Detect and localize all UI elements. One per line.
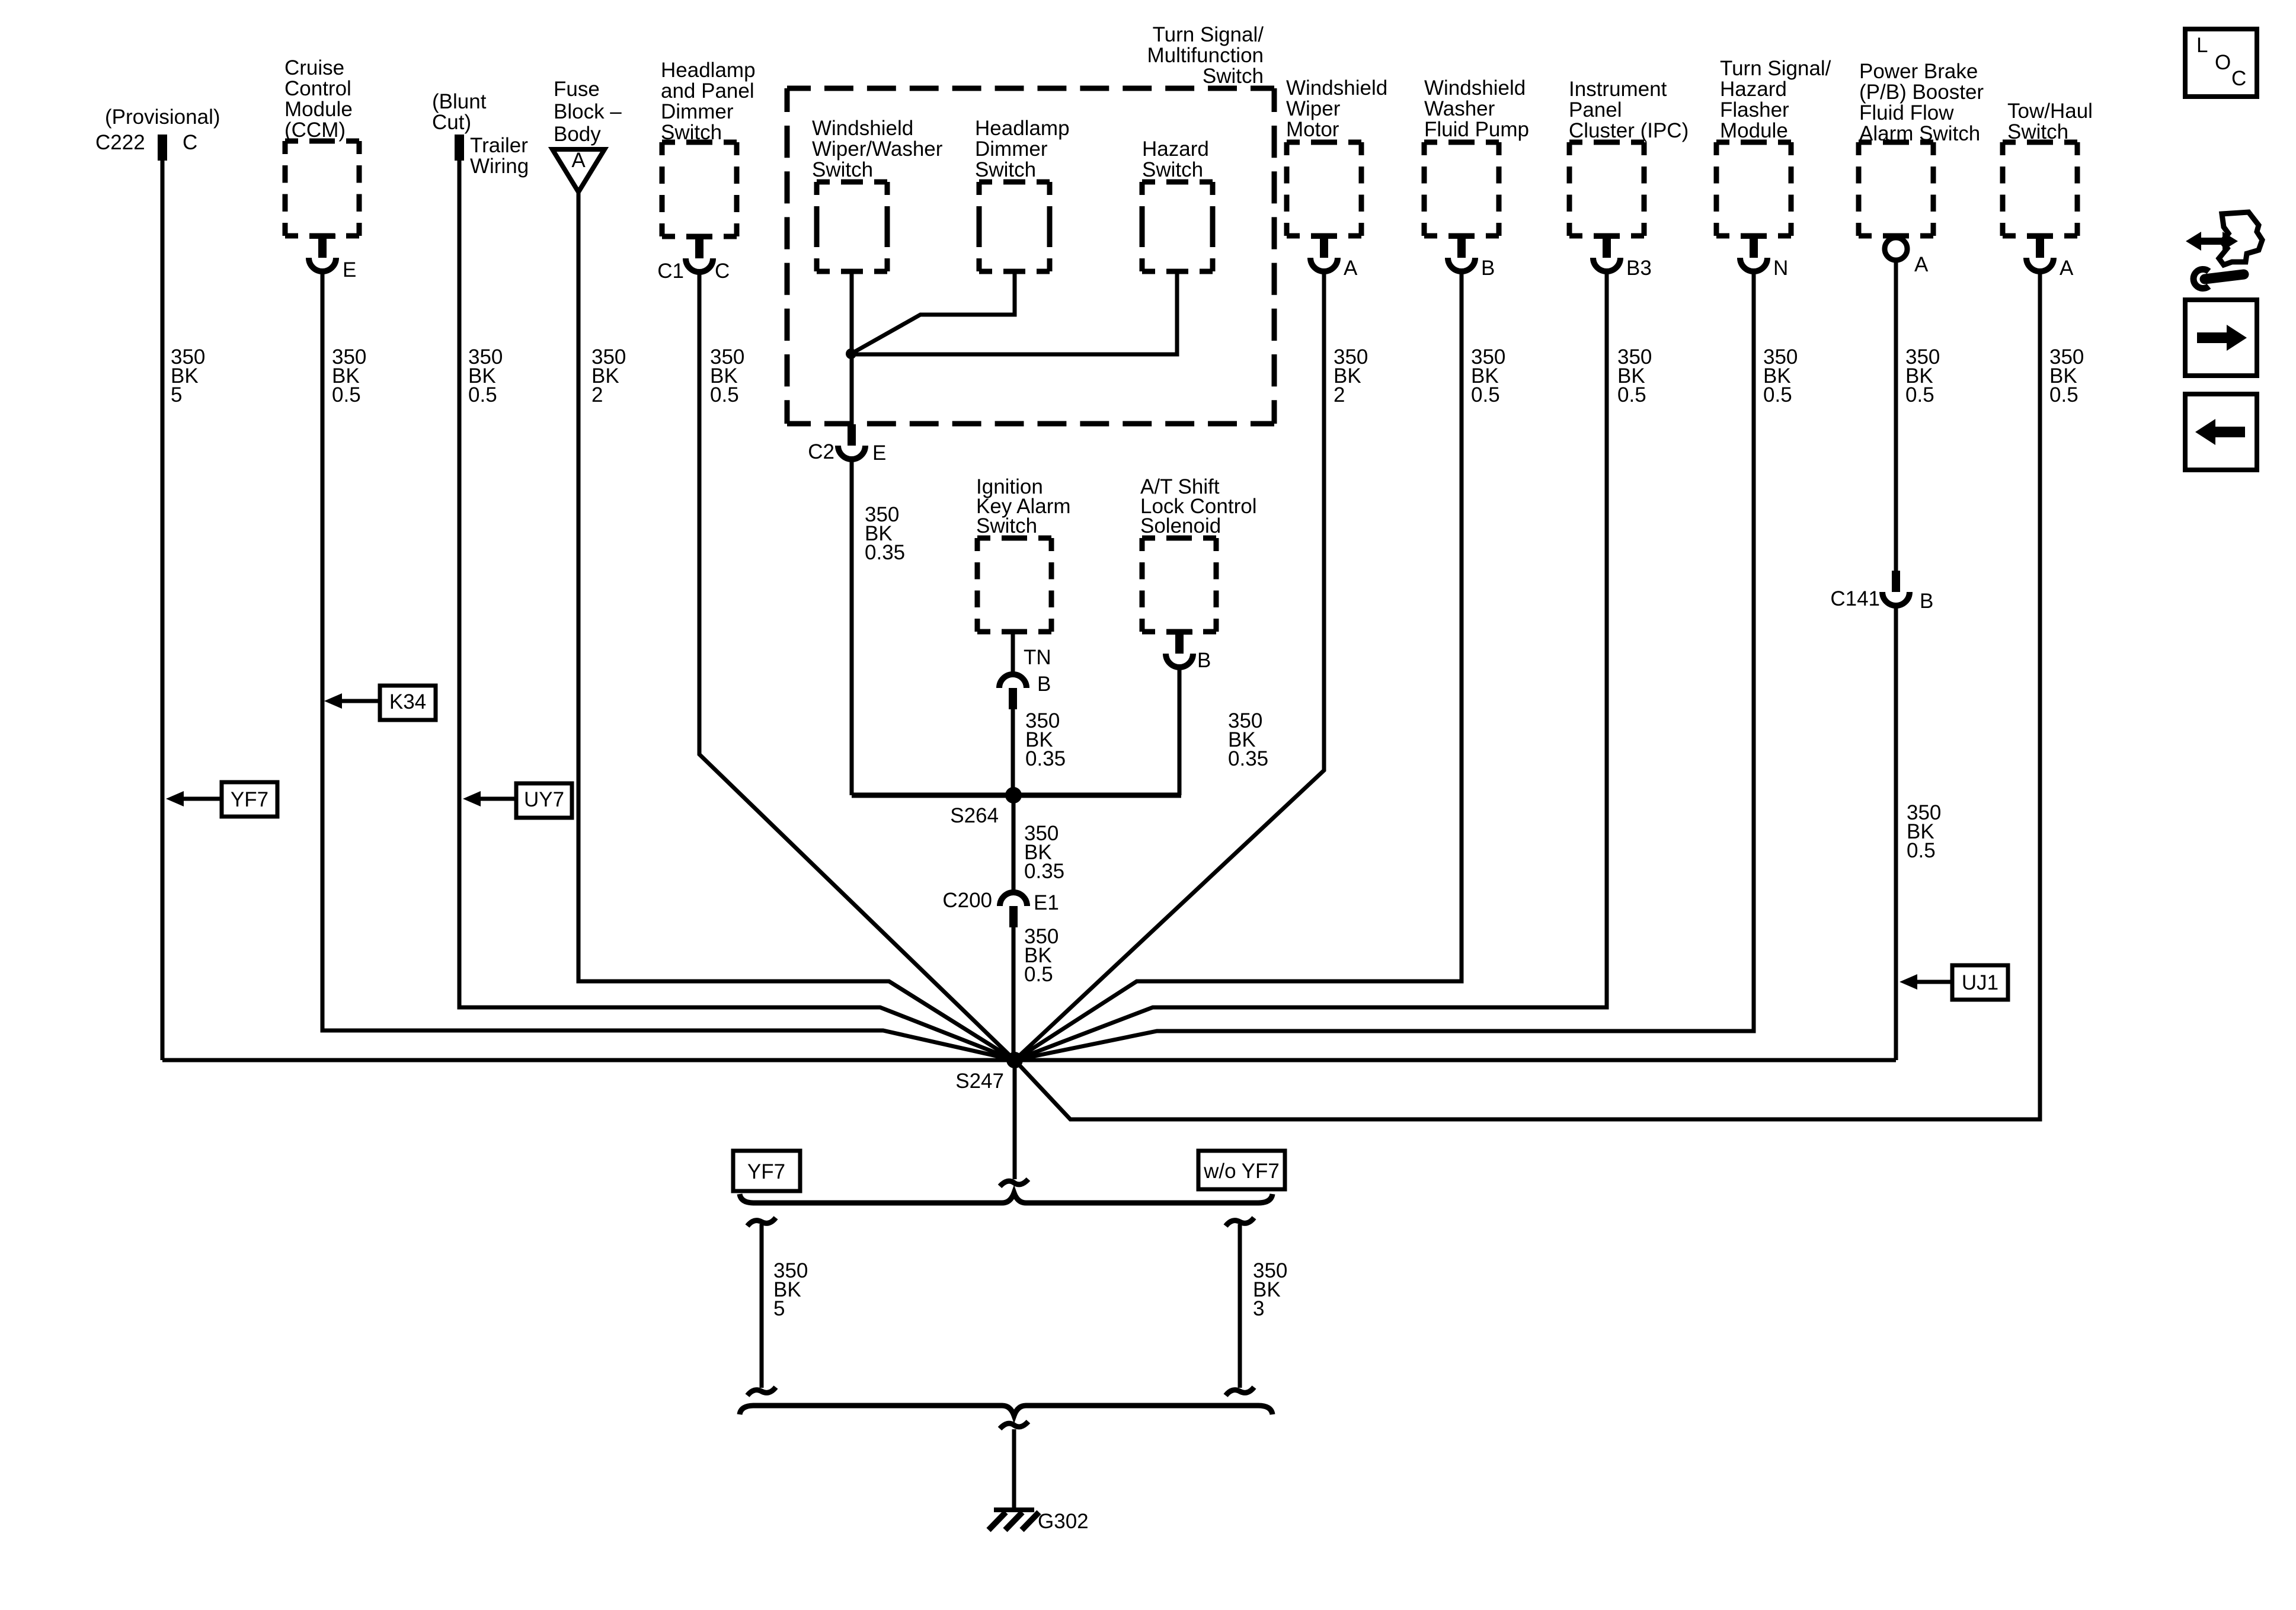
svg-text:w/o YF7: w/o YF7 — [1203, 1160, 1280, 1183]
svg-text:Windshield: Windshield — [812, 117, 913, 140]
wire IPC to S247 — [1015, 271, 1607, 1060]
circuit option arrow UJ1 — [1900, 965, 2008, 1000]
svg-text:(CCM): (CCM) — [284, 119, 346, 142]
svg-text:Fuse: Fuse — [554, 78, 600, 101]
svg-text:O: O — [2215, 51, 2231, 74]
svg-text:A: A — [2060, 257, 2074, 280]
ring terminal A of power brake alarm switch — [1885, 238, 1929, 276]
option tag YF7 — [733, 1151, 800, 1191]
wire C141 to S247 — [1894, 606, 1898, 1060]
wire label 350 BK 0.5 — [1763, 345, 1798, 406]
connector pin B3 of Instrument Panel Cluster (IPC) — [1593, 233, 1652, 280]
svg-text:N: N — [1773, 257, 1788, 280]
svg-text:YF7: YF7 — [231, 788, 268, 811]
svg-text:5: 5 — [773, 1297, 785, 1320]
wire C2-E to S264 — [850, 459, 854, 795]
svg-text:UJ1: UJ1 — [1962, 971, 1998, 994]
svg-text:Power Brake: Power Brake — [1859, 60, 1978, 83]
option brace bottom — [740, 1406, 1272, 1416]
svg-text:Control: Control — [284, 77, 351, 100]
connector C200 pin E1 — [942, 889, 1059, 927]
Fuse Block - Body triangle terminal A — [552, 78, 622, 192]
connector pin B of A/T shift lock solenoid — [1166, 629, 1211, 672]
wire S264 to C200 — [1012, 795, 1016, 892]
svg-text:Turn Signal/: Turn Signal/ — [1720, 57, 1831, 80]
svg-text:0.5: 0.5 — [332, 383, 361, 406]
connector pin A of tow/haul switch — [2026, 233, 2074, 280]
svg-text:2: 2 — [1334, 383, 1345, 406]
svg-text:Switch: Switch — [812, 158, 873, 181]
svg-text:Switch: Switch — [1203, 65, 1264, 88]
wire hazard switch horizontal — [851, 271, 1177, 354]
svg-text:0.35: 0.35 — [865, 541, 905, 564]
wire wiper motor to S247 — [1015, 271, 1324, 1060]
wire fuse block to S247 — [578, 192, 1015, 1060]
wire flasher module to S247 — [1015, 271, 1754, 1060]
svg-text:Hazard: Hazard — [1142, 137, 1209, 161]
wire CCM-E to S247 — [322, 271, 1015, 1060]
svg-text:G302: G302 — [1038, 1510, 1089, 1533]
wire label 350 BK 0.5 — [1024, 925, 1059, 986]
Windshield Washer Fluid Pump box — [1424, 76, 1529, 236]
junction dot inside multifunction switch — [846, 348, 856, 359]
Instrument Panel Cluster (IPC) box — [1569, 78, 1689, 236]
svg-text:0.35: 0.35 — [1025, 747, 1066, 770]
svg-text:Dimmer: Dimmer — [975, 137, 1048, 161]
svg-text:A: A — [1914, 253, 1929, 276]
svg-text:0.5: 0.5 — [1471, 383, 1500, 406]
component location icon (part outline with arrow and wrench) — [2186, 212, 2262, 289]
connector C2 pin E — [808, 424, 886, 465]
svg-text:YF7: YF7 — [747, 1160, 785, 1183]
svg-text:Motor: Motor — [1286, 118, 1339, 141]
svg-text:0.5: 0.5 — [2049, 383, 2078, 406]
svg-text:0.5: 0.5 — [710, 383, 739, 406]
svg-text:Headlamp: Headlamp — [661, 59, 756, 82]
svg-text:C: C — [2231, 67, 2246, 90]
svg-text:C2: C2 — [808, 440, 834, 463]
wire ignition to S264 — [1011, 709, 1015, 795]
svg-text:0.5: 0.5 — [1024, 963, 1053, 986]
svg-text:B: B — [1920, 590, 1933, 613]
left option wire 350 BK 5 — [747, 1218, 808, 1395]
connector C222 (Provisional) blunt terminal — [95, 105, 220, 161]
wire trailer to S247 — [459, 161, 1015, 1060]
svg-text:(P/B) Booster: (P/B) Booster — [1859, 81, 1984, 104]
wire label 350 BK 0.5 — [1907, 801, 1941, 862]
svg-text:Alarm Switch: Alarm Switch — [1859, 122, 1980, 145]
svg-text:A: A — [571, 149, 586, 172]
svg-text:Instrument: Instrument — [1569, 78, 1667, 101]
wire C222 to S247 ground bus — [161, 161, 165, 1060]
wire label 350 BK 0.5 — [332, 345, 366, 406]
svg-text:TN: TN — [1024, 646, 1051, 669]
wire label 350 BK 2 — [591, 345, 626, 406]
connector C1 pin C — [657, 234, 730, 283]
wire headlamp dimmer switch diagonal — [851, 271, 1015, 354]
wire label 350 BK 0.35 — [1025, 709, 1066, 770]
wire label 350 BK 5 — [171, 345, 205, 406]
wire to ground — [1012, 1429, 1016, 1510]
svg-text:E: E — [343, 258, 356, 281]
Hazard Switch box — [1142, 137, 1213, 271]
svg-text:and Panel: and Panel — [661, 79, 754, 103]
Tow/Haul Switch box — [2003, 100, 2093, 236]
svg-text:Turn Signal/: Turn Signal/ — [1153, 23, 1264, 46]
splice node S247 — [955, 1052, 1023, 1093]
option tag w/o YF7 — [1198, 1151, 1285, 1189]
LOC legend box — [2185, 29, 2257, 97]
A/T Shift Lock Control Solenoid box — [1140, 475, 1256, 632]
svg-text:Multifunction: Multifunction — [1147, 44, 1264, 67]
Turn Signal/Multifunction Switch outer box — [787, 23, 1274, 424]
svg-text:0.5: 0.5 — [468, 383, 497, 406]
wire label 350 BK 0.5 — [710, 345, 744, 406]
svg-text:B: B — [1481, 257, 1495, 280]
svg-text:0.5: 0.5 — [1617, 383, 1646, 406]
Ignition Key Alarm Switch box — [976, 475, 1071, 632]
wire label 350 BK 0.35 — [1024, 822, 1064, 883]
merge squiggle below braces — [1000, 1422, 1028, 1429]
svg-text:Headlamp: Headlamp — [975, 117, 1070, 140]
svg-text:E1: E1 — [1034, 891, 1059, 914]
svg-text:Cluster (IPC): Cluster (IPC) — [1569, 119, 1689, 142]
Cruise Control Module (CCM) box — [284, 56, 359, 236]
wire label 350 BK 0.35 — [1228, 709, 1268, 770]
wire label 350 BK 0.5 — [2049, 345, 2084, 406]
Windshield Wiper Motor box — [1286, 76, 1387, 236]
wire alarm switch to C141 — [1894, 261, 1898, 571]
splice S264 bus — [852, 793, 1181, 798]
svg-text:C222: C222 — [95, 131, 145, 154]
svg-text:Body: Body — [554, 123, 601, 146]
svg-text:B: B — [1037, 673, 1051, 696]
Power Brake (P/B) Booster Fluid Flow Alarm Switch box — [1859, 60, 1984, 236]
svg-text:S247: S247 — [955, 1070, 1004, 1093]
wire label 350 BK 0.5 — [468, 345, 503, 406]
svg-text:(Blunt: (Blunt — [432, 90, 487, 113]
svg-text:Module: Module — [1720, 119, 1788, 142]
blunt cut trailer wiring terminal — [432, 90, 529, 178]
svg-text:A: A — [1344, 257, 1358, 280]
node S264 — [950, 787, 1022, 827]
svg-text:0.5: 0.5 — [1905, 383, 1934, 406]
svg-text:(Provisional): (Provisional) — [105, 105, 220, 129]
svg-text:C141: C141 — [1830, 587, 1880, 610]
legend previous-page arrow box — [2185, 394, 2257, 470]
svg-text:5: 5 — [171, 383, 182, 406]
svg-text:C200: C200 — [942, 889, 992, 912]
svg-text:Trailer: Trailer — [470, 134, 528, 157]
svg-text:Switch: Switch — [975, 158, 1036, 181]
connector pin N of Turn Signal/Hazard Flasher Module — [1740, 233, 1788, 280]
wire S247 down to option split — [1013, 1060, 1017, 1179]
legend next-page arrow box — [2185, 300, 2257, 376]
option brace top — [740, 1193, 1272, 1203]
Headlamp and Panel Dimmer Switch box — [661, 59, 756, 236]
svg-text:0.5: 0.5 — [1763, 383, 1792, 406]
svg-text:Panel: Panel — [1569, 98, 1622, 121]
svg-text:UY7: UY7 — [524, 788, 564, 811]
connector pin B of Windshield Washer Fluid Pump — [1448, 233, 1495, 280]
svg-text:Switch: Switch — [976, 514, 1037, 537]
svg-text:Wiper: Wiper — [1286, 97, 1341, 120]
svg-text:Windshield: Windshield — [1424, 76, 1526, 100]
Headlamp Dimmer Switch box — [975, 117, 1070, 271]
svg-text:Cut): Cut) — [432, 111, 471, 134]
wire label 350 BK 0.35 — [865, 503, 905, 564]
svg-text:3: 3 — [1253, 1297, 1264, 1320]
svg-text:Dimmer: Dimmer — [661, 100, 734, 123]
connector pin A of Windshield Wiper Motor — [1310, 233, 1358, 280]
ground bus wire C222 to C141 through S247 — [162, 1058, 1896, 1062]
svg-text:0.5: 0.5 — [1907, 839, 1936, 862]
wire dimmer switch to S247 — [699, 272, 1015, 1060]
svg-text:C1: C1 — [657, 260, 684, 283]
svg-text:C: C — [715, 260, 730, 283]
svg-text:Switch: Switch — [1142, 158, 1203, 181]
svg-text:Block –: Block – — [554, 100, 622, 123]
svg-text:Cruise: Cruise — [284, 56, 344, 79]
svg-text:K34: K34 — [389, 690, 426, 713]
connector pin B of ignition key alarm switch — [999, 673, 1051, 709]
wire label 350 BK 0.5 — [1905, 345, 1940, 406]
svg-text:0.35: 0.35 — [1228, 747, 1268, 770]
wire label 350 BK 0.5 — [1617, 345, 1652, 406]
svg-text:Fluid Flow: Fluid Flow — [1859, 101, 1954, 124]
wire ignition switch lead TN — [1013, 632, 1051, 674]
svg-text:0.35: 0.35 — [1024, 860, 1064, 883]
connector C141 pin B — [1830, 571, 1933, 613]
svg-text:S264: S264 — [950, 804, 999, 827]
circuit option arrow K34 — [324, 686, 436, 720]
ground G302 — [989, 1507, 1089, 1533]
svg-text:B3: B3 — [1626, 257, 1652, 280]
svg-text:Wiper/Washer: Wiper/Washer — [812, 137, 943, 161]
svg-text:Washer: Washer — [1424, 97, 1495, 120]
svg-text:C: C — [183, 131, 197, 154]
svg-text:Windshield: Windshield — [1286, 76, 1387, 100]
svg-text:Module: Module — [284, 98, 353, 121]
svg-text:L: L — [2196, 34, 2208, 57]
option split squiggle — [1000, 1179, 1028, 1186]
circuit option arrow YF7 — [166, 782, 277, 817]
svg-text:Wiring: Wiring — [470, 155, 529, 178]
wire label 350 BK 0.5 — [1471, 345, 1505, 406]
svg-text:B: B — [1197, 649, 1211, 672]
wire C200 to S247 — [1012, 927, 1016, 1060]
wire label 350 BK 2 — [1334, 345, 1368, 406]
wire tow/haul to S247 — [1015, 271, 2040, 1119]
svg-text:Flasher: Flasher — [1720, 98, 1789, 121]
svg-text:2: 2 — [591, 383, 603, 406]
svg-text:Hazard: Hazard — [1720, 78, 1787, 101]
wire wiper/washer switch down — [850, 271, 854, 424]
connector pin E of CCM — [309, 233, 356, 281]
right option wire 350 BK 3 — [1226, 1218, 1287, 1395]
circuit option arrow UY7 — [463, 783, 572, 818]
svg-text:E: E — [872, 441, 886, 465]
wire washer pump to S247 — [1015, 271, 1462, 1060]
svg-text:Fluid Pump: Fluid Pump — [1424, 118, 1529, 141]
svg-text:Solenoid: Solenoid — [1140, 514, 1221, 537]
svg-text:Tow/Haul: Tow/Haul — [2007, 100, 2093, 123]
Windshield Wiper/Washer Switch box — [812, 117, 943, 271]
Turn Signal/Hazard Flasher Module box — [1716, 57, 1831, 236]
wire A/T solenoid to S264 — [1178, 667, 1182, 795]
